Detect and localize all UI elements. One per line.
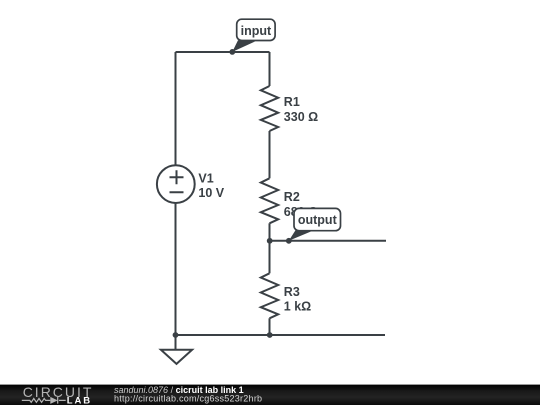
svg-text:V1: V1 (198, 171, 213, 185)
node: input junction dot (229, 49, 235, 55)
node: ground junction dot (173, 332, 179, 338)
net flag output (289, 208, 341, 240)
node: R3 bottom junction dot (267, 332, 273, 338)
footer bar (0, 385, 540, 405)
svg-text:1 kΩ: 1 kΩ (284, 299, 311, 313)
wire: R1 bottom to R2 top (269, 131, 271, 178)
wire: output horizontal stub (270, 240, 387, 242)
svg-text:10 V: 10 V (198, 186, 224, 200)
node: output flag attachment dot (286, 238, 292, 244)
label R3 (284, 285, 311, 314)
wire: V1 positive terminal up to top-left corner (175, 52, 177, 165)
wire: bottom rail (176, 334, 386, 336)
svg-text:R3: R3 (284, 285, 300, 299)
resistor R3 (261, 273, 278, 318)
footer logo wire-resistor-diode glyph (22, 397, 66, 404)
wire: R1 top lead down from top wire (269, 52, 271, 86)
wire: R3 bottom lead to bottom rail (269, 318, 271, 335)
svg-text:LAB: LAB (67, 396, 92, 405)
wire: V1 negative terminal down to bottom rail (175, 203, 177, 335)
label V1 value (198, 171, 224, 200)
svg-text:R2: R2 (284, 190, 300, 204)
resistor R1 (261, 86, 278, 131)
net flag input (232, 19, 275, 52)
svg-text:R1: R1 (284, 95, 300, 109)
svg-text:http://circuitlab.com/cg6ss523: http://circuitlab.com/cg6ss523r2hrb (114, 394, 262, 404)
label R2 (value partly hidden behind output flag) (284, 190, 318, 219)
voltage source V1 (157, 165, 195, 203)
wire: R2 bottom through output node to R3 top (269, 223, 271, 273)
svg-text:output: output (298, 213, 338, 227)
ground (161, 335, 192, 364)
svg-text:input: input (241, 24, 272, 38)
resistor R2 (261, 178, 278, 223)
svg-text:330 Ω: 330 Ω (284, 110, 318, 124)
wire: top horizontal from corner to R1 branch (176, 51, 270, 53)
label R1 (284, 95, 318, 124)
node: output junction dot on branch (267, 238, 273, 244)
